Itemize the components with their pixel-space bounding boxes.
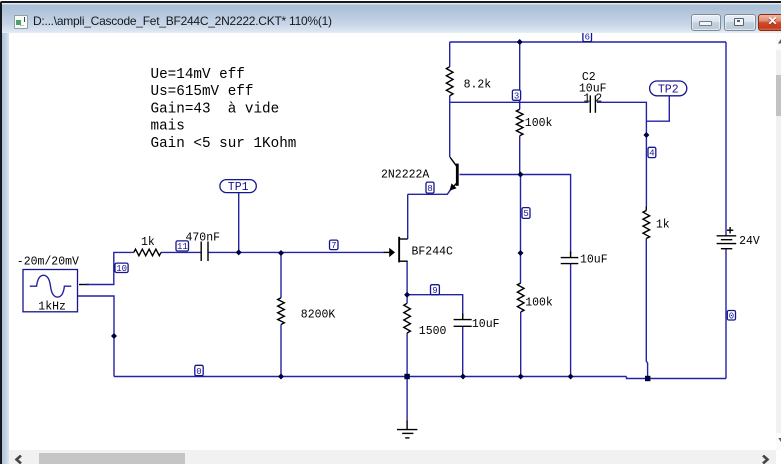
wire source plus stub [79, 284, 89, 286]
svg-text:-20m/20mV: -20m/20mV [17, 255, 79, 268]
wire 8.2k top lead [449, 42, 451, 67]
svg-text:470nF: 470nF [186, 232, 221, 245]
svg-text:1: 1 [583, 93, 590, 106]
svg-text:1kHz: 1kHz [38, 301, 66, 314]
wire divider mid [520, 175, 522, 284]
junction node 6 / 100k [517, 39, 523, 45]
svg-text:BF244C: BF244C [412, 245, 454, 258]
svg-text:TP1: TP1 [228, 181, 249, 194]
junction node 5 base [518, 172, 524, 178]
junction ground C4 [460, 374, 466, 380]
resistor 100k (lower divider) [517, 283, 524, 312]
svg-text:6: 6 [585, 33, 590, 43]
junction node 7 8200K [278, 250, 284, 256]
wire 1500 top lead [406, 295, 408, 304]
wire ground stem [406, 377, 408, 422]
wire node 5 base rail to C3 [460, 175, 571, 255]
test point TP2 [650, 81, 687, 96]
capacitor C3 10uF (base bypass) [561, 252, 579, 264]
node 3 [512, 90, 520, 101]
wire ground rail main [114, 376, 627, 378]
wire TP1 stem [238, 193, 240, 252]
node 7 [330, 240, 339, 251]
node 6 [583, 31, 592, 42]
wire 1500 bottom lead [406, 333, 408, 377]
wire source plus to R1 [87, 252, 134, 284]
window top border [0, 0, 781, 1]
ground [397, 421, 417, 438]
svg-text:Us=615mV eff: Us=615mV eff [151, 84, 254, 100]
node 11 [176, 241, 189, 252]
transistor J1 BF244C (JFET) [383, 237, 407, 263]
wire node 11 R1 to C1 [161, 251, 201, 253]
svg-text:Gain <5 sur 1Kohm: Gain <5 sur 1Kohm [151, 136, 297, 152]
title bar icon [14, 15, 28, 29]
resistor 1k (load) [643, 206, 650, 238]
node 8 [426, 182, 434, 194]
svg-text:10uF: 10uF [580, 254, 608, 267]
close button [758, 14, 781, 31]
wire JFET source drop [406, 262, 408, 295]
wire VCC drop to battery plus [725, 42, 727, 236]
node 5 [522, 208, 530, 220]
svg-text:2: 2 [595, 93, 602, 106]
svg-text:2N2222A: 2N2222A [381, 168, 429, 181]
svg-text:10: 10 [116, 264, 127, 274]
resistor R1 1k (input) [134, 249, 161, 256]
junction divider mid dot [518, 250, 524, 256]
capacitor C1 470nF [201, 242, 208, 262]
svg-text:8: 8 [427, 184, 432, 194]
wire node 6 top rail [450, 41, 726, 43]
wire node 7 C1 to JFET gate [208, 251, 383, 253]
junction node 7 TP1 [236, 249, 242, 255]
svg-text:10uF: 10uF [472, 318, 500, 331]
svg-text:0: 0 [729, 311, 734, 321]
wire collector riser [449, 102, 451, 157]
capacitor C2 10uF (output) [590, 95, 595, 112]
wire 100k lower bottom lead [520, 312, 522, 377]
junction ground 100k lower [518, 374, 524, 380]
junction ground 8200K [278, 374, 284, 380]
svg-text:1k: 1k [656, 219, 670, 232]
wire node 9 horizontal to C4 [407, 295, 463, 319]
node 4 [648, 147, 656, 158]
svg-text:1k: 1k [141, 236, 155, 249]
junction node 9 [404, 292, 410, 298]
svg-text:TP2: TP2 [658, 83, 679, 96]
svg-text:11: 11 [177, 242, 188, 252]
junction ground 1500 [404, 374, 409, 379]
node 10 [115, 263, 128, 274]
node 9 [431, 285, 440, 296]
svg-text:3: 3 [514, 91, 519, 101]
resistor 1500 [404, 303, 411, 333]
wire battery minus drop [725, 249, 727, 379]
wire 100k upper bottom lead [519, 136, 521, 175]
wire 8200K top lead [280, 253, 282, 298]
title bar [1, 3, 781, 33]
svg-text:Gain=43 à vide: Gain=43 à vide [151, 101, 280, 117]
svg-text:Ue=14mV eff: Ue=14mV eff [151, 67, 245, 83]
svg-text:5: 5 [523, 209, 528, 219]
wire 100k upper top lead [519, 42, 521, 109]
svg-text:0: 0 [196, 367, 201, 377]
wire 8200K bottom lead [280, 325, 282, 377]
battery V2 24V [717, 227, 737, 249]
test point TP1 [220, 180, 256, 194]
wire source minus to ground rail [78, 296, 115, 377]
maximize (restore) button [724, 14, 756, 31]
minimize button [691, 14, 721, 31]
capacitor C4 10uF (source bypass) [454, 314, 472, 327]
svg-text:7: 7 [331, 241, 336, 251]
junction source ground branch [111, 333, 117, 339]
title text [33, 14, 332, 28]
junction ground 1k load [645, 376, 650, 381]
svg-text:24V: 24V [739, 235, 760, 248]
wire 8.2k bottom lead [449, 96, 451, 103]
svg-text:mais: mais [151, 119, 185, 135]
svg-text:100k: 100k [525, 117, 553, 130]
wire 1k load bottom lead jog [646, 239, 647, 379]
resistor 8200K [278, 298, 285, 325]
source V1 sine generator [23, 270, 78, 312]
horizontal scrollbar [9, 450, 776, 464]
svg-text:1500: 1500 [419, 325, 447, 338]
wire ground rail right segment [627, 377, 727, 379]
svg-text:8200K: 8200K [301, 308, 336, 321]
wire C2 output to node 4 drop [597, 102, 646, 206]
svg-text:9: 9 [432, 286, 437, 296]
wire TP2 stem [646, 93, 669, 121]
transistor Q1 2N2222A [449, 157, 458, 191]
wire JFET drain riser [407, 194, 409, 239]
wire C3 bottom lead [570, 264, 572, 377]
node 0 (battery) [727, 311, 735, 322]
svg-text:100k: 100k [525, 297, 553, 310]
wire node 3 horizontal [450, 101, 589, 103]
junction ground C3 [568, 374, 574, 380]
left blue strip [2, 33, 9, 464]
left window border [0, 3, 2, 464]
resistor 100k (upper divider) [516, 109, 523, 136]
svg-text:8.2k: 8.2k [464, 79, 492, 92]
node 0 (ground rail) [195, 365, 203, 377]
wire node 8 emitter to drain [408, 190, 451, 194]
resistor 8.2k [446, 67, 453, 96]
vertical scrollbar [776, 33, 781, 450]
junction node 4 TP2 [643, 132, 649, 138]
svg-text:4: 4 [649, 149, 654, 159]
wire C4 bottom lead [462, 327, 464, 377]
